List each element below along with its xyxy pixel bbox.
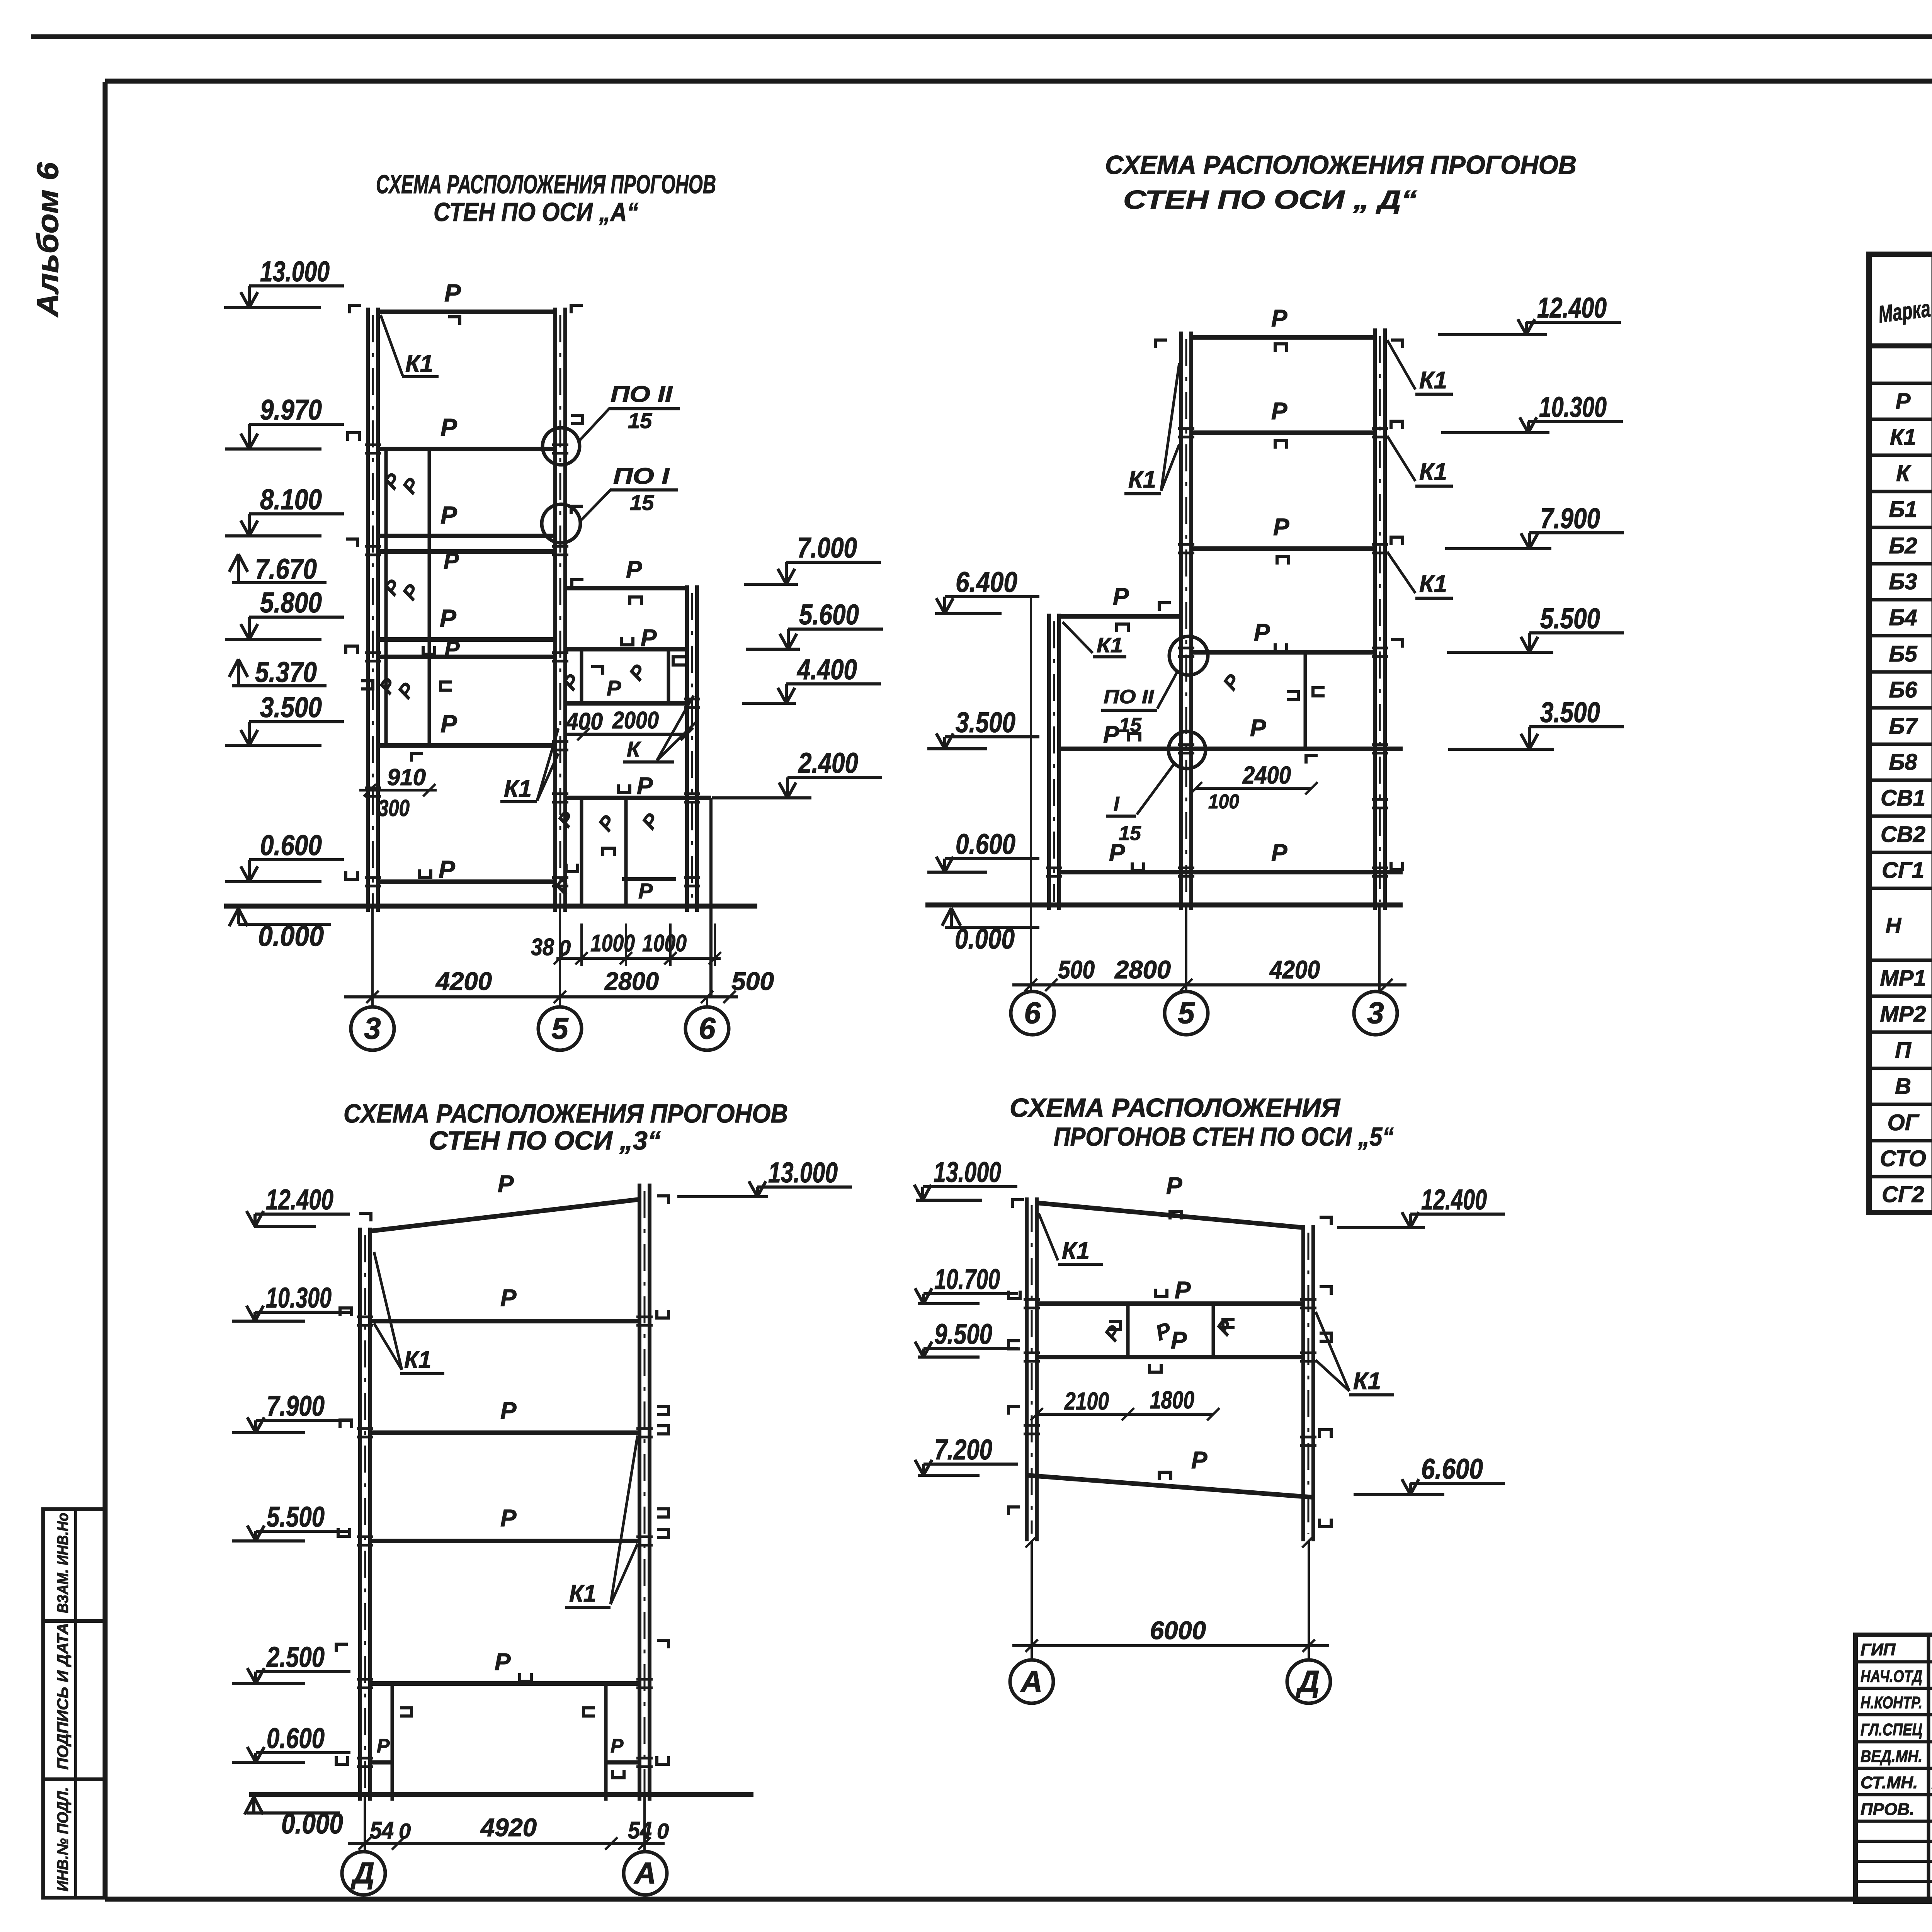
elevation 13.000 drawing 3 right [757,1185,852,1189]
svg-text:СХЕМА РАСПОЛОЖЕНИЯ ПРОГОНОВ: СХЕМА РАСПОЛОЖЕНИЯ ПРОГОНОВ [1105,150,1577,180]
svg-text:В: В [1895,1074,1911,1099]
svg-text:4200: 4200 [1269,955,1320,984]
svg-text:12.400: 12.400 [1537,292,1607,324]
svg-text:Р: Р [439,855,455,883]
svg-text:6.600: 6.600 [1421,1453,1483,1485]
dim row 4200/2800/500 drawing 1 [344,995,738,998]
sloped top beam P drawing 3 [370,1199,639,1231]
dim 2400/100 drawing 2 [1196,787,1311,790]
beam P at 8.100 drawing 1 [378,534,555,538]
svg-text:0.000: 0.000 [281,1808,343,1840]
svg-text:3: 3 [1367,996,1384,1030]
elevation 5.500 drawing 2 right [1529,631,1624,634]
svg-text:2100: 2100 [1064,1387,1109,1415]
svg-text:15: 15 [628,408,652,433]
svg-text:0: 0 [399,1819,411,1843]
svg-text:2000: 2000 [612,707,659,734]
svg-text:ВЗАМ. ИНВ.Но: ВЗАМ. ИНВ.Но [54,1513,71,1613]
svg-text:15: 15 [1119,714,1142,736]
beam P at 7.900 drawing 2 [1191,546,1375,551]
svg-text:ВЕД.МН.: ВЕД.МН. [1861,1747,1922,1766]
beam P at 4.400 drawing 1 right [565,701,687,706]
svg-text:Р: Р [638,879,653,903]
vertical at 2400 from col5 drawing 2 [1304,652,1307,749]
svg-text:НАЧ.ОТД: НАЧ.ОТД [1861,1667,1922,1686]
dim 2100/1800 drawing 4 [1037,1413,1213,1416]
svg-text:3.500: 3.500 [1540,696,1600,728]
beam P at 10.300 drawing 3 [370,1319,639,1323]
beam P at 0.600 drawing 1 [378,879,555,884]
dim row 380/1000/1000 drawing 1 [556,957,721,960]
left stamp boxes [43,1509,105,1898]
column axis 3 drawing 2 [1373,328,1377,910]
elevation 3.500 drawing 1 [249,720,344,723]
axis circle A drawing 4 [1010,1660,1053,1703]
svg-text:Р: Р [500,1285,517,1311]
svg-text:12.400: 12.400 [266,1184,333,1216]
column axis 5 drawing 1 [553,308,557,912]
svg-text:0: 0 [657,1819,669,1843]
svg-text:К: К [1896,461,1911,486]
svg-text:А: А [1020,1664,1043,1698]
lower panel drawing 1 right [580,798,583,908]
elevation 3.500 drawing 2 right [1529,725,1624,728]
svg-text:6: 6 [1024,996,1041,1030]
svg-text:6.400: 6.400 [956,566,1017,598]
svg-text:К1: К1 [1419,459,1447,485]
elevation 0.000 drawing 1 (up) [238,923,331,926]
svg-text:2800: 2800 [1114,955,1171,984]
elevation 5.800 drawing 1 [249,616,344,619]
svg-text:15: 15 [1119,822,1141,845]
svg-text:Б8: Б8 [1889,750,1917,775]
dim 400 2000 drawing 1 [565,733,687,736]
axis circle A drawing 3 [624,1852,667,1895]
svg-text:0.000: 0.000 [955,923,1015,955]
elevation 8.100 drawing 1 [249,512,344,515]
svg-text:54: 54 [628,1817,652,1844]
svg-text:8.100: 8.100 [260,483,322,515]
svg-text:К1: К1 [1890,425,1916,450]
column axis 3 drawing 1 [366,308,370,912]
elevation 5.370 drawing 1 (up) [232,684,327,687]
svg-text:1000: 1000 [590,930,635,957]
dim row 500/2800/4200 drawing 2 [1012,983,1406,986]
svg-text:Р: Р [1271,840,1287,866]
elevation 3.500 drawing 2 left [945,735,1039,738]
svg-text:10.700: 10.700 [934,1263,1000,1295]
elevation 13.000 drawing 1 [249,284,344,287]
svg-text:15: 15 [630,490,654,515]
detail circle I drawing 2 [1168,731,1206,769]
column axis A drawing 4 [1025,1197,1029,1541]
svg-text:Р: Р [1191,1447,1207,1474]
svg-text:Р: Р [1103,721,1119,748]
svg-text:Б1: Б1 [1889,497,1917,522]
dim 6000 drawing 4 [1012,1644,1329,1647]
svg-text:СХЕМА РАСПОЛОЖЕНИЯ ПРОГОНОВ: СХЕМА РАСПОЛОЖЕНИЯ ПРОГОНОВ [344,1099,788,1128]
svg-text:К1: К1 [1419,367,1447,394]
svg-text:7.900: 7.900 [1540,502,1600,534]
svg-text:I: I [1114,793,1120,815]
detail circle PO II drawing 2 [1169,636,1208,675]
svg-text:ГИП: ГИП [1861,1640,1896,1659]
beam P at 3.500 drawing 2 [1059,747,1403,751]
svg-text:Б5: Б5 [1889,641,1917,667]
axis circle 5 drawing 2 [1165,992,1208,1035]
svg-text:Р: Р [626,556,642,583]
svg-text:2.400: 2.400 [798,747,858,779]
svg-text:СХЕМА РАСПОЛОЖЕНИЯ: СХЕМА РАСПОЛОЖЕНИЯ [1010,1093,1340,1122]
svg-text:5.600: 5.600 [799,599,859,631]
svg-text:400: 400 [565,708,603,735]
svg-text:5.500: 5.500 [1540,602,1600,634]
svg-text:Р: Р [1271,398,1287,425]
svg-text:38: 38 [531,934,554,961]
axis circle 5 drawing 1 [538,1007,582,1050]
svg-text:3: 3 [364,1011,381,1045]
svg-text:Б2: Б2 [1889,533,1917,558]
svg-text:Р: Р [607,676,621,700]
svg-text:0.600: 0.600 [260,829,322,861]
ground line drawing 2 [925,903,1403,908]
svg-text:0.600: 0.600 [267,1722,325,1754]
svg-text:Б4: Б4 [1889,605,1917,630]
svg-text:СТЕН ПО ОСИ „А“: СТЕН ПО ОСИ „А“ [434,197,638,227]
svg-text:СВ1: СВ1 [1881,786,1925,811]
svg-text:5: 5 [1178,996,1195,1030]
svg-text:Р: Р [1273,514,1289,541]
axis circle 6 drawing 2 [1011,992,1054,1035]
column axis D drawing 4 [1301,1225,1305,1541]
svg-text:Р: Р [440,501,457,529]
beam P at 12.400 drawing 2 [1191,335,1375,340]
axis lines drawing 4 [1031,1541,1033,1660]
svg-text:Р: Р [1254,619,1270,646]
svg-text:5: 5 [551,1011,569,1045]
svg-text:500: 500 [1058,955,1095,984]
beam P at 0.600 drawing 2 [1059,870,1403,874]
elevation 12.400 drawing 3 [255,1213,350,1216]
svg-text:0.000: 0.000 [258,920,324,952]
elevation 0.600 drawing 2 left [945,857,1039,860]
elevation 2.400 drawing 1 right [787,776,882,779]
beam P at 3.500 drawing 1 [378,743,555,748]
svg-text:910: 910 [387,764,426,790]
svg-text:МР1: МР1 [1880,966,1926,991]
svg-text:СТЕН ПО ОСИ „ Д“: СТЕН ПО ОСИ „ Д“ [1123,185,1417,214]
svg-text:Р: Р [1175,1277,1191,1304]
column axis 6 drawing 1 [685,585,689,912]
elevation 7.900 drawing 3 [256,1419,350,1422]
elevation 2.500 drawing 3 [256,1670,350,1673]
svg-text:Р: Р [444,548,459,574]
elevation 9.500 drawing 4 [923,1347,1018,1350]
beam P at 7.000 drawing 1 right [565,586,687,590]
fence vertical drawing 1 right [709,798,713,997]
beam P at 5.500 drawing 3 [370,1539,639,1543]
svg-text:ПОДПИСЬ И ДАТА: ПОДПИСЬ И ДАТА [54,1623,71,1770]
beam P at 5.800 drawing 1 [378,637,555,642]
svg-text:К1: К1 [1419,571,1447,597]
svg-text:К1: К1 [1062,1238,1090,1264]
panel verticals drawing 4 [1126,1304,1130,1357]
ground line drawing 1 [224,904,757,909]
svg-text:Р: Р [1113,583,1129,610]
elevation 7.900 drawing 2 right [1529,531,1624,534]
svg-text:Р: Р [498,1171,514,1197]
svg-text:6000: 6000 [1150,1616,1206,1645]
svg-text:5.500: 5.500 [267,1501,325,1533]
svg-text:Р: Р [377,1735,390,1757]
svg-text:13.000: 13.000 [768,1156,838,1189]
svg-text:ПО II: ПО II [611,382,673,407]
axis dash lines drawing 2 [1030,597,1032,991]
title block signatures table [1855,1635,1932,1901]
svg-text:Р: Р [637,773,653,799]
svg-text:Р: Р [1250,715,1266,742]
column axis A drawing 3 [638,1184,641,1801]
svg-text:2.500: 2.500 [266,1641,325,1673]
beam P at 2.500 drawing 3 [370,1681,639,1686]
elevation 9.970 drawing 1 [249,423,344,426]
axis circle 6 drawing 1 [685,1007,729,1050]
svg-text:Р: Р [641,625,657,651]
svg-text:К1: К1 [504,776,532,802]
svg-text:7.000: 7.000 [797,532,857,564]
svg-text:3.500: 3.500 [956,706,1015,738]
svg-text:СВ2: СВ2 [1881,822,1925,847]
beam P at 0.600 segments drawing 3 [370,1760,392,1765]
svg-text:ОГ: ОГ [1888,1110,1920,1135]
beam P at 9.970 drawing 1 [378,447,555,451]
axis circle 3 drawing 2 [1354,992,1397,1035]
svg-text:СТЕН ПО ОСИ „3“: СТЕН ПО ОСИ „3“ [429,1126,661,1155]
svg-text:А: А [634,1856,656,1890]
svg-text:Р: Р [611,1735,624,1757]
svg-text:К1: К1 [1128,466,1156,493]
column axis 5 drawing 2 [1179,332,1183,910]
svg-text:Р: Р [444,279,461,307]
svg-text:Альбом 6: Альбом 6 [31,162,65,318]
svg-text:К1: К1 [1097,634,1123,657]
svg-text:7.900: 7.900 [267,1390,325,1422]
dim row 540/4920/540 drawing 3 [348,1842,665,1845]
elevation 0.000 drawing 2 (up) [945,926,1039,929]
beam P at 6.400 drawing 2 (col6-col5) [1059,614,1181,619]
svg-text:Д: Д [1296,1664,1320,1698]
svg-text:СГ1: СГ1 [1882,858,1924,883]
beam P at 7.900 drawing 3 [370,1430,639,1435]
elevation 13.000 drawing 4 [923,1185,1017,1188]
column axis D drawing 3 [358,1228,362,1801]
svg-text:100: 100 [1208,791,1239,813]
svg-text:Р: Р [1271,305,1287,332]
axis circle D drawing 3 [342,1852,385,1895]
dim 910/300 drawing 1 [359,789,437,792]
elevation 7.200 drawing 4 [923,1463,1018,1466]
table row lines [1869,418,1932,421]
elevation 4.400 drawing 1 right [786,682,881,685]
svg-text:10.300: 10.300 [1539,391,1607,423]
axis circle D drawing 4 [1287,1660,1330,1703]
svg-text:СГ2: СГ2 [1882,1182,1924,1207]
svg-text:Р: Р [440,710,457,738]
svg-text:5.800: 5.800 [260,587,322,619]
svg-text:ПРОВ.: ПРОВ. [1861,1800,1914,1819]
detail circle PO II drawing 1 [543,428,580,465]
svg-text:К1: К1 [1353,1368,1381,1395]
svg-text:К1: К1 [569,1580,596,1607]
svg-text:Р: Р [440,413,457,441]
beam P at 13.000 drawing 1 [378,310,555,314]
svg-text:СТО: СТО [1880,1146,1926,1171]
elevation 6.600 drawing 4 right [1410,1482,1505,1485]
svg-text:Р: Р [1166,1173,1182,1199]
svg-text:К: К [627,737,641,761]
svg-text:6: 6 [699,1011,716,1045]
svg-text:1000: 1000 [642,930,687,957]
elevation 12.400 drawing 2 right [1526,321,1621,324]
svg-text:К1: К1 [404,1347,431,1373]
svg-text:9.500: 9.500 [934,1318,992,1350]
elevation 0.600 drawing 1 [249,858,344,861]
svg-text:9.970: 9.970 [260,394,322,426]
elevation 10.300 drawing 2 right [1528,420,1623,423]
svg-text:2800: 2800 [604,967,659,995]
svg-text:Б7: Б7 [1889,714,1918,739]
table outer border [1869,254,1932,1213]
svg-text:Р: Р [1896,389,1911,414]
beam P at 5.500 drawing 2 [1191,650,1375,655]
svg-text:7.670: 7.670 [255,553,317,585]
elevation 7.670 drawing 1 (up) [232,581,327,584]
ground line drawing 3 [249,1792,753,1797]
svg-text:Р: Р [500,1505,517,1532]
svg-text:Д: Д [350,1856,374,1890]
elevation 7.000 drawing 1 right [786,561,881,564]
elevation 6.400 drawing 2 [945,595,1039,598]
level line 2.400 drawing 1 right [565,796,711,800]
beam P at 5.600 drawing 1 right [565,647,687,651]
beam P at 10.700 drawing 4 [1037,1301,1303,1306]
sheet border: top outer line [31,34,1932,39]
svg-text:5.370: 5.370 [255,656,317,688]
inner drawing frame [105,79,1932,84]
beam P at 10.300 drawing 2 [1191,430,1375,435]
axis lines to circles drawing 1 [371,906,374,1006]
elevation 5.600 drawing 1 right [788,628,883,631]
wall panel verticals drawing 1 [384,451,388,745]
elevation 0.000 drawing 3 (up) [247,1811,340,1815]
svg-text:ПРОГОНОВ СТЕН ПО ОСИ „5“: ПРОГОНОВ СТЕН ПО ОСИ „5“ [1054,1122,1394,1151]
beam P at 9.500 drawing 4 [1037,1355,1303,1359]
svg-text:СХЕМА РАСПОЛОЖЕНИЯ ПРОГОНОВ: СХЕМА РАСПОЛОЖЕНИЯ ПРОГОНОВ [376,170,716,199]
svg-text:ПО II: ПО II [1104,686,1154,707]
elevation 10.700 drawing 4 [923,1292,1018,1295]
svg-text:Р: Р [440,604,456,632]
svg-text:10.300: 10.300 [266,1282,332,1314]
svg-text:13.000: 13.000 [260,255,330,287]
svg-text:ИНВ.№ ПОДЛ.: ИНВ.№ ПОДЛ. [54,1787,71,1891]
elevation 10.300 drawing 3 [255,1311,350,1314]
svg-text:2400: 2400 [1242,761,1291,789]
svg-text:СТ.МН.: СТ.МН. [1861,1773,1918,1792]
svg-text:Р: Р [495,1649,511,1675]
svg-text:7.200: 7.200 [934,1434,992,1466]
column axis 6 drawing 2 [1047,614,1051,910]
table column lines [1932,254,1932,1213]
elevation 0.600 drawing 3 [256,1751,350,1754]
elevation 5.500 drawing 3 [256,1530,350,1533]
svg-text:300: 300 [378,795,410,821]
svg-text:ГЛ.СПЕЦ: ГЛ.СПЕЦ [1861,1720,1922,1739]
elevation 12.400 drawing 4 right [1410,1213,1505,1216]
svg-text:ПО I: ПО I [613,464,670,489]
svg-text:4920: 4920 [480,1813,537,1842]
beam P at 5.370 drawing 1 [378,655,555,659]
svg-text:П: П [1895,1038,1912,1063]
sloped top beam P drawing 4 [1037,1203,1303,1228]
svg-text:МР2: МР2 [1880,1002,1926,1027]
column bottom marks drawing 4 [1009,1406,1020,1415]
svg-text:Н.КОНТР.: Н.КОНТР. [1861,1693,1922,1712]
svg-text:500: 500 [731,967,774,995]
beam P at 7.670 drawing 1 [378,549,555,554]
svg-text:Р: Р [500,1398,517,1424]
svg-text:54: 54 [370,1817,394,1844]
axis lines drawing 3 [364,1794,366,1851]
panel verticals drawing 3 [391,1684,394,1801]
svg-text:4.400: 4.400 [796,653,857,685]
detail circle PO I drawing 1 [542,504,580,543]
svg-text:0.600: 0.600 [956,828,1015,860]
panel between 5.600-4.400 drawing 1 right [580,649,583,703]
svg-text:Б6: Б6 [1889,677,1917,702]
svg-text:3.500: 3.500 [260,691,322,723]
svg-text:13.000: 13.000 [934,1156,1001,1188]
axis circle 3 drawing 1 [351,1007,394,1050]
svg-text:Н: Н [1886,913,1902,937]
svg-text:К1: К1 [405,350,433,377]
svg-text:1800: 1800 [1150,1386,1194,1414]
sloped beam P at 7.200 drawing 4 [1027,1475,1313,1497]
svg-text:4200: 4200 [435,967,492,995]
svg-text:Р: Р [444,636,460,662]
svg-text:Б3: Б3 [1889,569,1917,594]
svg-text:12.400: 12.400 [1421,1184,1487,1216]
